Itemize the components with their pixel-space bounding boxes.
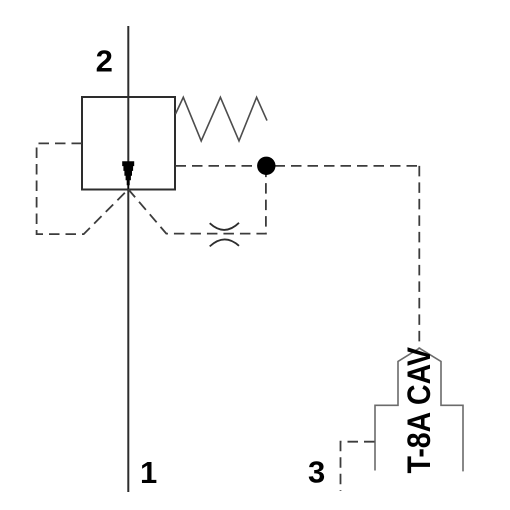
orifice lower arc <box>210 239 239 246</box>
orifice upper arc <box>210 223 239 230</box>
svg-text:2: 2 <box>96 43 113 78</box>
svg-text:1: 1 <box>140 455 157 490</box>
poppet arrow inside valve <box>122 161 134 189</box>
port 3 line (dashed) <box>341 442 375 491</box>
spring <box>176 97 268 141</box>
pilot line down to cavity (dashed vertical) <box>418 166 420 349</box>
pilot line right branch with orifice (dashed) <box>128 166 266 234</box>
pilot line from valve to cavity (dashed horizontal) <box>176 165 420 167</box>
svg-text:T-8A CAV: T-8A CAV <box>401 346 437 473</box>
pilot line left loop (dashed) <box>37 143 129 234</box>
junction dot <box>257 157 275 175</box>
wire: main vertical line from port 2 through valve to port 1 <box>127 26 129 492</box>
relief valve body (square envelope) <box>82 97 175 190</box>
cavity outline T-8A <box>375 348 463 471</box>
svg-text:3: 3 <box>308 455 325 490</box>
